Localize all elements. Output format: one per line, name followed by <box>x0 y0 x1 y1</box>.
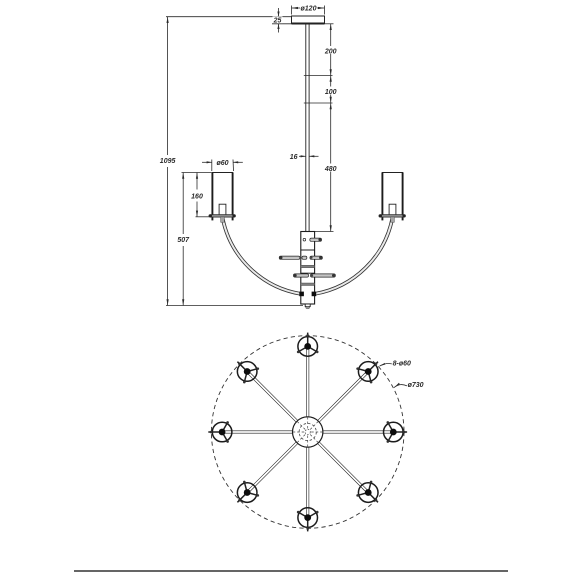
svg-text:ø60: ø60 <box>216 160 228 167</box>
svg-text:507: 507 <box>177 237 190 244</box>
svg-text:160: 160 <box>191 193 203 200</box>
svg-text:100: 100 <box>325 89 337 96</box>
svg-text:25: 25 <box>273 17 282 24</box>
svg-text:ø730: ø730 <box>408 382 424 389</box>
svg-text:8-ø60: 8-ø60 <box>393 360 411 367</box>
svg-text:ø120: ø120 <box>301 6 317 13</box>
svg-text:16: 16 <box>290 154 298 161</box>
svg-text:1095: 1095 <box>160 158 176 165</box>
svg-text:200: 200 <box>324 48 337 55</box>
svg-text:480: 480 <box>324 166 337 173</box>
